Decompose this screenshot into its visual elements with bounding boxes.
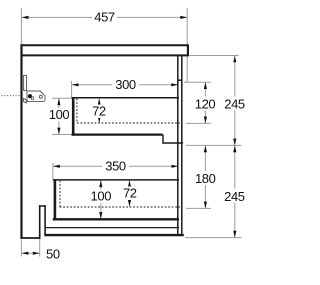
plinth bracket left leg <box>39 205 41 239</box>
ext line 245 bottom <box>185 237 242 239</box>
dim 180 dimension line <box>204 146 206 209</box>
hanging rail bottom tick <box>177 79 182 81</box>
svg-text:72: 72 <box>123 186 137 201</box>
dim 100 lower dimension line <box>100 180 102 218</box>
dim 457 arrow left <box>22 16 29 19</box>
dim 100 upper ext bottom <box>52 134 71 136</box>
dim 300 left extension line <box>71 81 73 97</box>
dim 245 top dimension line <box>234 56 236 146</box>
svg-text:457: 457 <box>94 10 115 25</box>
ext line 120 top <box>184 81 211 83</box>
dim 72 lower label <box>121 187 139 201</box>
dim 457 label <box>92 10 117 24</box>
dim 300 dimension line <box>72 84 178 86</box>
dim 350 left extension line <box>52 163 54 179</box>
svg-text:100: 100 <box>91 189 112 204</box>
front panel <box>20 44 22 239</box>
upper runner step horizontal <box>162 142 183 144</box>
svg-text:245: 245 <box>224 189 245 204</box>
svg-text:180: 180 <box>195 171 216 186</box>
ext line 120 bottom <box>186 122 211 124</box>
dim 120 dimension line <box>204 82 206 123</box>
dim 245 bottom dimension line <box>234 146 236 238</box>
dim 120 label <box>193 97 218 111</box>
ext line right 245 top (from countertop) <box>189 55 238 57</box>
upper drawer box front <box>72 97 75 135</box>
plinth bracket top bar <box>39 205 46 207</box>
dim 350 dimension line <box>53 165 178 167</box>
dim 100 lower label <box>88 190 114 204</box>
svg-text:72: 72 <box>92 104 106 119</box>
ext line 245 junction <box>186 144 242 146</box>
ext line 180 bottom <box>186 207 211 209</box>
hinge arm plate <box>24 75 27 90</box>
dim 245 bottom label <box>221 189 248 203</box>
upper drawer box top <box>71 97 179 99</box>
dim 100 upper dimension line <box>58 98 60 134</box>
upper drawer dashed horizontal <box>77 122 180 124</box>
lower drawer box front <box>54 179 57 220</box>
hinge flag below <box>23 98 26 103</box>
upper drawer dashed vertical <box>76 99 78 124</box>
svg-text:350: 350 <box>105 159 126 174</box>
dim 50 ext right <box>39 239 41 256</box>
dim 180 label <box>193 171 219 185</box>
dim 245 top label <box>222 97 248 111</box>
hinge body <box>27 91 45 102</box>
lower drawer dashed horizontal <box>60 206 180 208</box>
lower drawer box bottom <box>53 218 179 220</box>
dim 72 upper label <box>90 105 108 119</box>
cabinet bottom top line <box>46 227 179 229</box>
hinge centerline dotted <box>2 95 21 97</box>
dim 50 dimension line <box>22 252 40 254</box>
countertop <box>21 45 188 55</box>
upper drawer box bottom <box>71 134 162 136</box>
lower drawer dashed vertical <box>59 181 61 208</box>
hinge adjust screw <box>39 95 42 98</box>
front panel bottom edge <box>21 237 41 239</box>
hinge cup screw dot <box>28 94 32 98</box>
dim 457 arrow right <box>180 16 187 19</box>
lower drawer box top <box>53 179 179 181</box>
dim 72 lower dimension line <box>129 180 131 206</box>
dim 300 label <box>112 78 139 92</box>
svg-text:100: 100 <box>49 107 70 122</box>
back panel outer line <box>181 56 183 236</box>
dim 457 extension line left <box>20 8 22 44</box>
hinge clip square <box>31 97 33 100</box>
dim 50 ext left <box>20 240 22 257</box>
svg-text:300: 300 <box>115 77 136 92</box>
dim 350 label <box>102 160 129 174</box>
back panel inner line <box>177 56 179 236</box>
svg-text:245: 245 <box>224 96 245 111</box>
upper runner step vertical <box>162 135 164 144</box>
dim 457 extension line right <box>186 8 188 82</box>
svg-text:50: 50 <box>46 247 60 262</box>
dim 457 dimension line <box>22 16 187 18</box>
plinth bracket right leg <box>44 205 46 234</box>
dim 100 upper label <box>46 108 72 122</box>
cabinet bottom slab <box>44 234 184 236</box>
svg-text:120: 120 <box>195 96 216 111</box>
dim 100 upper ext top <box>52 97 71 99</box>
dim 72 upper dimension line <box>98 99 100 123</box>
